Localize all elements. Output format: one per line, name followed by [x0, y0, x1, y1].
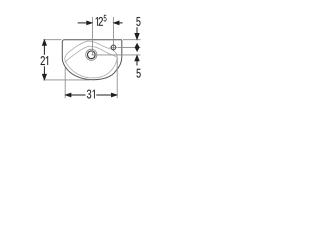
dimension right 5 top arrow	[135, 27, 139, 39]
tap hole circle	[111, 45, 116, 50]
dimension 21 bottom arrow	[42, 74, 46, 80]
inner bowl arc	[65, 46, 117, 62]
dimension text 12.5	[96, 17, 103, 26]
dimension 12.5 right arrow	[114, 21, 123, 25]
dimension 31 left arrow	[65, 93, 71, 97]
extension line 31 right	[116, 58, 118, 99]
drain outer circle	[86, 49, 97, 60]
dimension text 21	[41, 56, 48, 65]
extension line right 5 middle (tap level)	[118, 46, 141, 48]
washbasin outer outline	[62, 40, 122, 80]
dimension text 12.5 superscript	[104, 15, 107, 22]
extension line 31 left	[64, 68, 66, 99]
extension line right 5 bottom (drain level)	[92, 54, 141, 56]
inner rim oval	[65, 41, 118, 78]
dimension 12.5 left arrow	[78, 21, 93, 25]
extension line bottom-left (21 bottom)	[43, 79, 90, 81]
extension line top-left (21 top)	[43, 39, 61, 41]
extension line 12.5 right (to tap hole)	[112, 17, 114, 44]
dimension 31 line	[70, 94, 113, 96]
dimension right 5 bottom arrow	[135, 55, 139, 65]
dimension right diamond (shared arrowheads)	[135, 44, 139, 52]
extension line 12.5 left (to drain)	[91, 17, 93, 55]
tap hole crosshair	[110, 44, 118, 52]
dimension right 5 text top	[136, 17, 140, 26]
dimension text 31	[87, 90, 95, 99]
drain inner circle	[87, 51, 95, 59]
dimension 21 line	[43, 44, 45, 76]
extension line right 5 top (basin top edge)	[123, 39, 141, 41]
dimension right 5 text bottom	[137, 69, 141, 78]
dimension 31 right arrow	[111, 93, 117, 97]
dimension 21 top arrow	[42, 40, 46, 46]
